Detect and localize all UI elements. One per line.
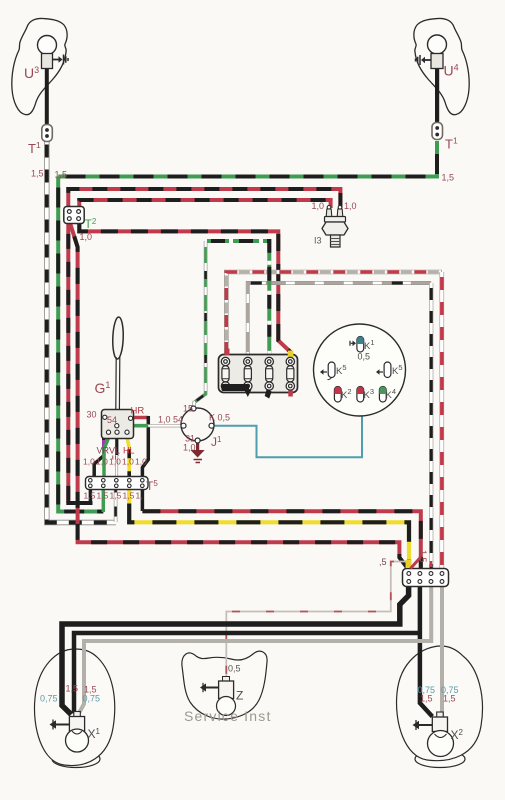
tail lamp X1 housing outline bbox=[34, 649, 114, 766]
indicator lamp K1 bbox=[350, 337, 364, 353]
connector T5 strip bbox=[86, 477, 149, 490]
bottom connector strip bbox=[403, 569, 449, 587]
ground arrow at X2 bbox=[413, 720, 433, 730]
wire from G1 middle to T5 col3 (black then open) bbox=[115, 439, 118, 457]
tail lamp X1 lens base bbox=[52, 751, 100, 768]
fuse 3 bottom stub arrow bbox=[265, 389, 272, 399]
license lamp Z housing outline bbox=[182, 651, 267, 719]
yellow tip into bottom connector col1 bbox=[406, 560, 412, 568]
wire open 1.0 to J1 terminal 54 bbox=[148, 424, 181, 427]
svg-text:HR: HR bbox=[131, 406, 145, 417]
svg-text:1,0 54: 1,0 54 bbox=[158, 415, 183, 425]
svg-text:0,75: 0,75 bbox=[83, 694, 101, 704]
connector T2 bbox=[64, 207, 84, 224]
ground at U3 bbox=[53, 55, 69, 65]
wire red HR stub from G1 bbox=[133, 416, 148, 420]
wire grey/red 0.5 from bottom connector to license lamp Z bbox=[226, 562, 406, 680]
indicator lamp K5 right bbox=[376, 362, 391, 378]
svg-text:1,5: 1,5 bbox=[442, 173, 455, 183]
svg-text:0,75: 0,75 bbox=[40, 694, 58, 704]
turn signal switch G1 stalk shaft bbox=[116, 357, 120, 410]
svg-text:1,5: 1,5 bbox=[31, 169, 44, 179]
indicator lamp K2 bbox=[334, 387, 341, 403]
ground at U4 bbox=[416, 55, 432, 65]
wire blue 0.5 from flasher J1 K terminal to indicator K3 bbox=[214, 402, 362, 457]
wire T5 col5 drop black bbox=[141, 490, 145, 512]
wire black HR down to T5 col5 bbox=[142, 416, 148, 477]
wire green/black from fuse 3 top left along y=241 bbox=[207, 241, 269, 355]
svg-text:1,5: 1,5 bbox=[97, 491, 109, 501]
lamp housing U3 outline bbox=[12, 18, 67, 114]
svg-text:I3: I3 bbox=[314, 236, 322, 246]
svg-text:1,5: 1,5 bbox=[110, 491, 122, 501]
fuse 2 bottom stub arrow bbox=[244, 390, 251, 398]
brake light switch I3 bbox=[322, 206, 348, 248]
fuse box bbox=[219, 349, 298, 393]
svg-text:1,5: 1,5 bbox=[66, 684, 79, 694]
svg-text:1,5: 1,5 bbox=[443, 694, 456, 704]
svg-text:1,: 1, bbox=[136, 491, 143, 501]
wire red/black from T2 bottom left diagonal, down left bus, right along y=543 to bottom connector col1 bbox=[70, 223, 408, 569]
wire black branch along y=633 to X1 bbox=[74, 633, 420, 714]
wire red/black 1.5 from T5 col5 right along y=511 to bottom connector col2 bbox=[142, 511, 420, 569]
wire black from bottom connector col2 down to X2 bbox=[420, 587, 432, 717]
svg-text:VR: VR bbox=[97, 446, 110, 456]
svg-text:1,5: 1,5 bbox=[418, 550, 428, 563]
tick marks under VL bbox=[113, 456, 116, 460]
wire grey from bottom connector col3 left along y=641 to X1 bbox=[79, 587, 431, 713]
bulb Z bbox=[217, 677, 236, 716]
wire grey/red 0.75 from fuse 1 up, right along y=272, down right bus to bottom connector col4 bbox=[226, 272, 441, 569]
svg-text:K 0,5: K 0,5 bbox=[209, 413, 230, 423]
wire red/black to I3 left terminal along y=200 into T2 top right bbox=[79, 200, 330, 208]
fuse 3 bbox=[265, 357, 273, 390]
wire green/black 1.5 from T1 right (U4) left along y=176 then down left bus to T5 col2 bbox=[58, 141, 437, 512]
svg-text:1,5: 1,5 bbox=[55, 170, 68, 180]
wire green from G1 to T5 col2 bbox=[104, 439, 108, 478]
svg-text:VL: VL bbox=[109, 446, 120, 456]
bulb U4 bbox=[428, 35, 447, 69]
turn signal switch G1 body bbox=[102, 410, 134, 439]
svg-text:1,0: 1,0 bbox=[312, 201, 325, 211]
svg-text:,5: ,5 bbox=[379, 557, 387, 567]
indicator lamp K4 bbox=[379, 386, 386, 402]
fuse 4 bbox=[286, 357, 294, 396]
svg-text:15: 15 bbox=[183, 404, 193, 414]
wire green G1 54 segment bbox=[132, 424, 148, 428]
fuse 1 bbox=[221, 357, 229, 390]
indicator lamp K3 bbox=[357, 387, 364, 403]
svg-text:1,5: 1,5 bbox=[123, 491, 135, 501]
svg-text:1,0: 1,0 bbox=[122, 457, 134, 467]
flasher relay J1 bbox=[181, 406, 214, 443]
svg-text:1,0: 1,0 bbox=[83, 457, 95, 467]
wire black G1 terminal 54 stub bbox=[119, 424, 132, 427]
wire yellow from G1 to T5 col4 bbox=[127, 439, 129, 478]
wire grey from bottom connector col4 down to X2 bbox=[440, 587, 444, 717]
wire U3 lamp feed (black, bulb to connector T1) bbox=[45, 68, 49, 152]
wire T5 col3 drop white/black bbox=[114, 490, 118, 523]
svg-text:Service Inst: Service Inst bbox=[184, 708, 272, 724]
wire dark red J1 terminal 31 to ground bbox=[196, 443, 199, 451]
svg-text:1,0: 1,0 bbox=[109, 457, 121, 467]
wire grey 0.75 from fuse 2 up, right along y=283, down right bus to bottom connector col3 bbox=[248, 283, 431, 569]
fuse bus bar bbox=[222, 384, 250, 391]
connector T1 right bbox=[432, 123, 443, 140]
wire black/white 1.5 from T1 left down the left bus, bend right at y=522 to T5 col3 bbox=[47, 142, 116, 523]
wire T5 col2 drop green bbox=[102, 490, 106, 513]
indicator lamp K5 left bbox=[320, 362, 335, 380]
svg-text:0,5: 0,5 bbox=[358, 352, 371, 362]
wire T5 col1 drop bbox=[89, 490, 93, 504]
red tick at connector col3 top bbox=[430, 561, 432, 567]
lamp housing U4 outline bbox=[414, 18, 469, 114]
connector T1 left bbox=[42, 125, 53, 142]
wire black junction stub y=503 to T5 col1 bbox=[66, 501, 92, 505]
wire black/purple from G1 terminal 30 down to T5 col1 bbox=[94, 420, 104, 478]
svg-text:1,0: 1,0 bbox=[344, 201, 357, 211]
bulb X2 bbox=[428, 712, 454, 757]
ground arrow at Z bbox=[200, 683, 219, 692]
svg-text:1,0: 1,0 bbox=[183, 443, 196, 453]
ground arrow at X1 bbox=[50, 720, 70, 730]
wire yellow/black 1.5 from T5 col4 right along y=521.5 to bottom connector col1 bbox=[129, 490, 409, 570]
bulb X1 bbox=[66, 712, 89, 753]
tail lamp X2 lens base bbox=[415, 751, 465, 768]
svg-text:HL: HL bbox=[123, 446, 135, 456]
svg-text:1,0: 1,0 bbox=[80, 232, 93, 242]
svg-text:1,0: 1,0 bbox=[135, 457, 147, 467]
instrument cluster circle bbox=[314, 324, 406, 416]
wire red/black 1.0 from T2 bottom right along y=231 to fuse 4 top bbox=[79, 223, 290, 356]
ground under J1 bbox=[191, 450, 205, 463]
svg-text:1,5: 1,5 bbox=[420, 694, 433, 704]
red branch from col2 wire into connector col1 bbox=[411, 557, 421, 569]
tail lamp X2 housing outline bbox=[397, 646, 483, 761]
bulb U3 bbox=[38, 36, 57, 69]
svg-text:30: 30 bbox=[87, 410, 97, 420]
svg-text:Z: Z bbox=[236, 689, 243, 703]
wire green 1.0 down to flasher J1 terminal 15 bbox=[194, 241, 206, 406]
svg-text:1,0: 1,0 bbox=[96, 457, 108, 467]
turn signal switch G1 stalk knob bbox=[112, 317, 124, 359]
svg-text:0,5: 0,5 bbox=[228, 664, 241, 674]
wire black 1.5 from bottom connector col1 left along y=624 down into X1 bbox=[62, 587, 409, 715]
wire red/black to I3 right terminal along y=189, down left bus to junction y=503 bbox=[68, 189, 340, 503]
svg-text:54: 54 bbox=[107, 415, 117, 425]
wire U4 lamp feed (black, bulb to connector T1 right) bbox=[435, 66, 439, 124]
svg-text:1,5: 1,5 bbox=[84, 491, 96, 501]
fuse 2 bbox=[244, 357, 252, 390]
